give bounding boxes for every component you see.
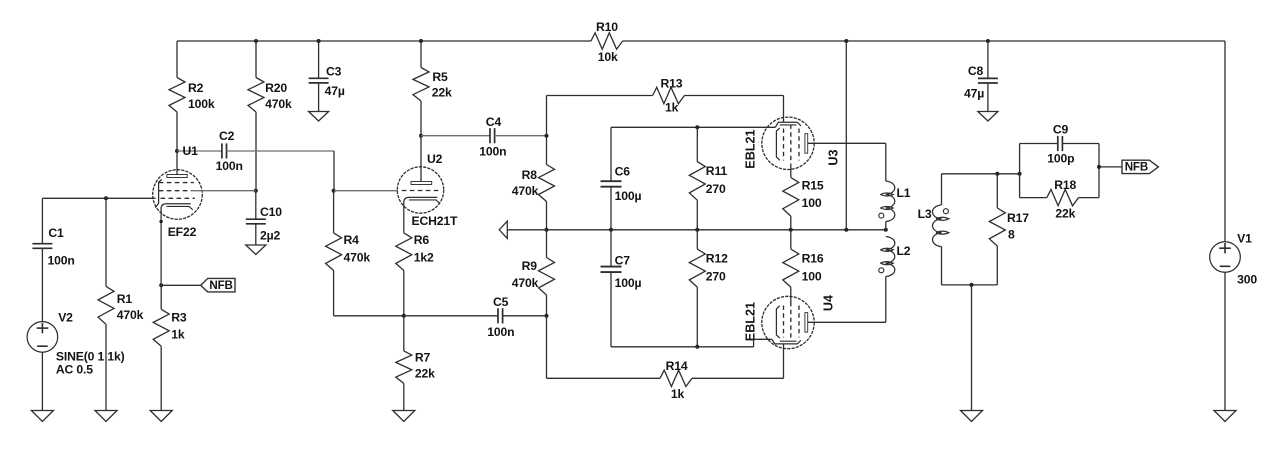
- svg-text:1k: 1k: [671, 387, 685, 401]
- svg-text:270: 270: [706, 270, 726, 284]
- svg-text:SINE(0 1 1k): SINE(0 1 1k): [56, 350, 125, 364]
- svg-text:R1: R1: [117, 292, 133, 306]
- svg-text:C2: C2: [219, 129, 235, 143]
- svg-text:R17: R17: [1007, 211, 1029, 225]
- svg-text:R6: R6: [414, 233, 430, 247]
- svg-text:R10: R10: [596, 20, 618, 34]
- svg-text:C4: C4: [486, 115, 502, 129]
- svg-text:470k: 470k: [512, 276, 539, 290]
- svg-text:470k: 470k: [512, 184, 539, 198]
- svg-text:100: 100: [802, 196, 822, 210]
- svg-text:100n: 100n: [487, 325, 514, 339]
- svg-text:R4: R4: [344, 233, 360, 247]
- svg-text:C6: C6: [615, 164, 631, 178]
- svg-text:R16: R16: [802, 251, 824, 265]
- svg-text:L2: L2: [897, 244, 911, 258]
- svg-text:470k: 470k: [265, 97, 292, 111]
- svg-text:EBL21: EBL21: [744, 129, 758, 168]
- svg-text:C7: C7: [615, 253, 631, 267]
- svg-text:C10: C10: [260, 205, 282, 219]
- svg-text:470k: 470k: [344, 251, 371, 265]
- svg-text:100p: 100p: [1047, 151, 1074, 165]
- svg-text:100: 100: [802, 270, 822, 284]
- svg-text:L3: L3: [918, 207, 932, 221]
- svg-text:1k: 1k: [171, 328, 185, 342]
- svg-text:R2: R2: [188, 81, 204, 95]
- svg-text:2µ2: 2µ2: [260, 229, 281, 243]
- svg-text:R7: R7: [415, 351, 431, 365]
- svg-text:U3: U3: [826, 149, 840, 165]
- svg-text:ECH21T: ECH21T: [412, 214, 459, 228]
- svg-text:100k: 100k: [188, 97, 215, 111]
- svg-text:R12: R12: [706, 251, 728, 265]
- svg-text:EF22: EF22: [168, 225, 197, 239]
- svg-text:L1: L1: [897, 186, 911, 200]
- svg-text:100n: 100n: [479, 144, 506, 158]
- svg-text:C5: C5: [493, 295, 509, 309]
- svg-text:C3: C3: [326, 64, 342, 78]
- svg-text:47µ: 47µ: [964, 86, 984, 100]
- svg-text:C9: C9: [1053, 122, 1069, 136]
- svg-text:R14: R14: [666, 359, 688, 373]
- svg-text:R15: R15: [802, 178, 824, 192]
- svg-text:AC 0.5: AC 0.5: [56, 363, 93, 377]
- svg-text:22k: 22k: [432, 86, 452, 100]
- svg-text:NFB: NFB: [1125, 161, 1148, 174]
- svg-text:1k: 1k: [665, 101, 679, 115]
- svg-text:R18: R18: [1054, 178, 1076, 192]
- svg-text:C8: C8: [968, 64, 984, 78]
- svg-text:270: 270: [706, 182, 726, 196]
- svg-text:R9: R9: [522, 259, 538, 273]
- svg-text:47µ: 47µ: [325, 84, 345, 98]
- svg-text:R13: R13: [661, 77, 683, 91]
- svg-text:V1: V1: [1237, 231, 1252, 245]
- svg-text:EBL21: EBL21: [744, 302, 758, 341]
- svg-text:470k: 470k: [117, 308, 144, 322]
- svg-text:22k: 22k: [415, 366, 435, 380]
- svg-text:100µ: 100µ: [615, 276, 642, 290]
- svg-text:R8: R8: [522, 168, 538, 182]
- svg-text:U1: U1: [183, 144, 199, 158]
- svg-text:R3: R3: [171, 311, 187, 325]
- svg-text:100µ: 100µ: [615, 189, 642, 203]
- svg-text:C1: C1: [48, 226, 64, 240]
- svg-text:R11: R11: [706, 164, 728, 178]
- svg-text:U4: U4: [821, 295, 835, 311]
- svg-text:R5: R5: [432, 70, 448, 84]
- svg-text:1k2: 1k2: [414, 251, 434, 265]
- svg-text:NFB: NFB: [209, 279, 232, 292]
- svg-text:100n: 100n: [48, 254, 75, 268]
- svg-text:10k: 10k: [598, 50, 618, 64]
- svg-text:8: 8: [1008, 228, 1015, 242]
- svg-text:300: 300: [1237, 273, 1257, 287]
- svg-text:22k: 22k: [1055, 207, 1075, 221]
- svg-text:100n: 100n: [216, 159, 243, 173]
- svg-text:U2: U2: [427, 152, 443, 166]
- svg-text:V2: V2: [58, 311, 73, 325]
- svg-text:R20: R20: [265, 81, 287, 95]
